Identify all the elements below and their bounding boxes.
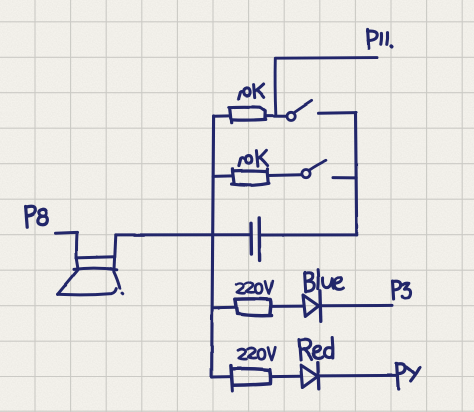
wire R4 to LED D2 (271, 375, 301, 378)
resistor R4 220 (231, 366, 271, 391)
node P8 label (26, 206, 48, 227)
wire capacitor C1 to right rail (260, 233, 357, 236)
capacitor C1 (251, 218, 260, 260)
wire speaker to capacitor C1 (116, 233, 250, 236)
resistor R1 10K (229, 107, 265, 123)
wire right rail (356, 113, 357, 235)
resistor R3 220 (235, 299, 272, 316)
LED D1 blue (303, 291, 321, 321)
node P11 label (368, 29, 392, 48)
node P3 label (393, 281, 411, 299)
wire rail to R4 (212, 375, 232, 378)
switch S1 (287, 101, 312, 121)
node P7 label (397, 363, 420, 389)
wire rail to R1 (214, 114, 230, 117)
label Blue (D1) (305, 270, 344, 292)
switch S2 (302, 160, 327, 177)
wire S2 contact to right rail (333, 176, 356, 179)
label 10K (R2) (239, 150, 268, 166)
wire S1 contact to right rail (319, 111, 356, 115)
wire rail to R2 (213, 174, 232, 178)
label 220V (R3) (236, 281, 272, 294)
speaker LS1 (56, 232, 123, 294)
label Red (D2) (299, 338, 333, 360)
label 220V (R4) (238, 347, 275, 360)
label 10K (R1) (239, 84, 265, 99)
wire rail to R3 (212, 306, 235, 310)
wire R3 to LED D1 (271, 305, 303, 308)
wire R1 to switch S1 (266, 115, 287, 118)
wire LED D1 to P3 (321, 304, 392, 307)
resistor R2 10K (232, 169, 269, 185)
wire left rail (middle vertical) (212, 116, 214, 377)
wire R2 to switch S2 (268, 173, 301, 177)
wire LED D2 to P7 (319, 374, 396, 378)
wire P11 to switch row (275, 58, 377, 115)
LED D2 red (301, 363, 319, 390)
